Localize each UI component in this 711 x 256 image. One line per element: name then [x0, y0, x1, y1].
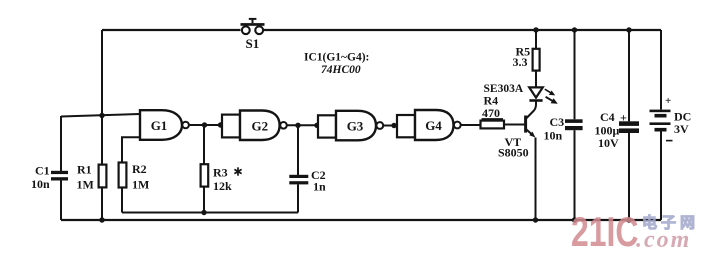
resistor R4	[481, 121, 505, 129]
gate G4 input box	[397, 115, 415, 137]
svg-text:电子网: 电子网	[642, 214, 699, 232]
svg-text:74HC00: 74HC00	[321, 64, 361, 76]
svg-text:G2: G2	[251, 119, 268, 134]
transistor VT	[526, 102, 536, 138]
label R3 star	[234, 167, 241, 175]
svg-text:10V: 10V	[598, 136, 619, 150]
svg-text:R3: R3	[213, 166, 228, 180]
svg-text:1M: 1M	[132, 178, 149, 192]
wire rail to R5	[535, 30, 537, 49]
svg-text:1n: 1n	[313, 180, 326, 194]
svg-text:1M: 1M	[77, 178, 94, 192]
wire R3 riser	[203, 125, 205, 164]
svg-text:IC1(G1~G4):: IC1(G1~G4):	[304, 52, 369, 64]
resistor R1	[99, 165, 107, 220]
svg-text:C1: C1	[35, 164, 50, 178]
wire G1 output	[189, 124, 222, 126]
svg-text:21IC: 21IC	[571, 208, 638, 255]
node G3 input	[314, 123, 319, 128]
wire top rail right segment	[264, 29, 662, 31]
battery DC 3V	[650, 30, 673, 220]
capacitor C1	[51, 116, 68, 220]
resistor R2	[119, 163, 127, 213]
label 470 underline	[482, 118, 504, 120]
capacitor C2	[289, 175, 308, 213]
wire C1 to G1 top input	[61, 114, 140, 117]
node emitter at rail	[533, 217, 538, 222]
svg-text:G3: G3	[347, 119, 364, 134]
svg-text:SE303A: SE303A	[484, 83, 524, 95]
wire bottom rail	[61, 219, 661, 221]
node G4 input	[391, 123, 396, 128]
svg-text:3.3: 3.3	[513, 55, 528, 69]
svg-text:S8050: S8050	[498, 146, 529, 160]
svg-text:C3: C3	[550, 115, 565, 129]
switch S1	[241, 19, 265, 34]
svg-text:10n: 10n	[31, 177, 50, 191]
node C4 top rail	[626, 27, 631, 32]
wire G1 bottom input from R2	[122, 137, 140, 162]
gate G4	[415, 110, 461, 140]
svg-text:C4: C4	[600, 110, 615, 124]
wire R5 to LED	[535, 71, 537, 88]
node G1 output to R3	[202, 122, 207, 127]
node R5 top rail	[533, 27, 538, 32]
capacitor C4	[619, 30, 639, 220]
svg-text:R1: R1	[77, 163, 92, 177]
svg-text:+: +	[665, 95, 671, 107]
wire G3 output	[383, 125, 397, 127]
node C3 bottom rail	[572, 217, 577, 222]
node C4 bottom rail	[626, 217, 631, 222]
gate G1	[140, 110, 189, 140]
svg-text:G1: G1	[151, 118, 168, 133]
svg-text:R2: R2	[132, 162, 147, 176]
svg-text:10n: 10n	[544, 129, 563, 143]
node G2 input	[218, 122, 223, 127]
wire C2 riser	[297, 125, 299, 175]
LED SE303A	[529, 87, 558, 103]
watermark 21IC.com logo	[571, 208, 699, 255]
wire feedback bottom	[122, 212, 298, 214]
gate G2	[240, 111, 287, 141]
gate G3	[336, 111, 383, 141]
resistor R5	[533, 49, 540, 71]
wire left vertical	[101, 30, 103, 165]
node R1 bottom	[99, 217, 104, 222]
node R3 bottom	[201, 210, 206, 215]
svg-text:S1: S1	[246, 36, 260, 51]
node C3 top rail	[572, 27, 577, 32]
resistor R3	[201, 164, 209, 212]
svg-text:12k: 12k	[213, 179, 232, 193]
wire R4 to base	[504, 124, 525, 126]
node junction left	[99, 113, 104, 118]
svg-text:470: 470	[482, 106, 500, 120]
gate G2 input box	[222, 115, 240, 138]
capacitor C3	[565, 30, 583, 220]
svg-text:+: +	[620, 111, 627, 125]
node G2 output to C2	[295, 123, 300, 128]
gate G3 input box	[318, 115, 336, 137]
wire top rail left segment	[102, 29, 241, 31]
wire emitter down	[535, 138, 537, 221]
svg-text:G4: G4	[425, 118, 442, 133]
svg-text:3V: 3V	[674, 122, 689, 136]
wire G4 output	[461, 124, 481, 126]
wire G2 output	[287, 124, 318, 126]
